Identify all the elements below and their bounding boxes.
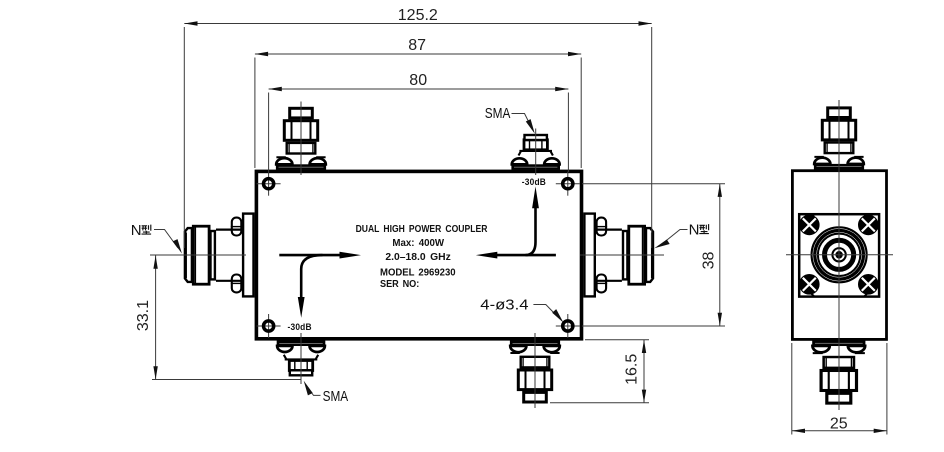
flow arrow right (pointing left) [476, 187, 556, 259]
mounting hole top-right [556, 172, 580, 196]
center label text [356, 224, 488, 290]
svg-text:N: N [131, 222, 142, 239]
SMA connector top-left (tall) [276, 102, 326, 176]
flow arrow left (input, pointing right) [279, 252, 361, 318]
side view body [792, 171, 886, 340]
label SMA top [485, 105, 535, 134]
svg-text:33.1: 33.1 [135, 300, 152, 331]
dimension 125.2 [184, 7, 651, 248]
front view body [256, 171, 581, 338]
label 4-dia3.4 [480, 297, 563, 323]
side N flange [799, 214, 879, 297]
svg-text:MODEL 2969230: MODEL 2969230 [380, 268, 456, 279]
svg-text:-30dB: -30dB [522, 177, 546, 187]
side view centerlines [838, 100, 840, 410]
dimension 80 [269, 72, 569, 172]
svg-text:DUAL HIGH POWER COUPLER: DUAL HIGH POWER COUPLER [356, 224, 488, 235]
dimension 38 [582, 184, 725, 326]
side N face circles [813, 229, 866, 282]
mounting hole bottom-left [257, 314, 281, 338]
svg-text:80: 80 [409, 72, 427, 89]
dimension 16.5 [550, 340, 649, 403]
svg-text:-30dB: -30dB [288, 322, 312, 332]
label N-type right [654, 221, 709, 248]
mounting hole top-left [257, 172, 281, 196]
svg-text:4-ø3.4: 4-ø3.4 [480, 297, 528, 314]
N connector left [150, 214, 254, 297]
label N-type left [131, 222, 182, 254]
SMA connector top-right (short) [512, 129, 560, 176]
svg-text:SMA: SMA [323, 388, 349, 405]
svg-text:SER NO:: SER NO: [380, 279, 419, 290]
side SMA top [814, 108, 864, 168]
svg-text:16.5: 16.5 [624, 354, 641, 385]
SMA connector bottom-left (short) [277, 333, 325, 384]
svg-text:38: 38 [701, 252, 718, 270]
side SMA bottom [813, 342, 866, 404]
svg-text:87: 87 [408, 37, 426, 54]
dimension 25 [792, 343, 887, 435]
svg-text:125.2: 125.2 [398, 7, 438, 24]
svg-text:2.0–18.0 GHz: 2.0–18.0 GHz [385, 252, 450, 263]
mounting hole bottom-right [556, 314, 580, 338]
label SMA bottom [304, 381, 349, 405]
dimension 87 [255, 37, 581, 168]
side N screws [800, 215, 879, 294]
svg-text:SMA: SMA [485, 105, 511, 122]
svg-text:Max: 400W: Max: 400W [392, 238, 444, 249]
svg-text:N: N [689, 221, 700, 238]
dimension 33.1 [135, 256, 301, 380]
N connector right [580, 214, 664, 297]
svg-text:25: 25 [830, 415, 848, 432]
SMA connector bottom-right (tall) [510, 333, 560, 408]
